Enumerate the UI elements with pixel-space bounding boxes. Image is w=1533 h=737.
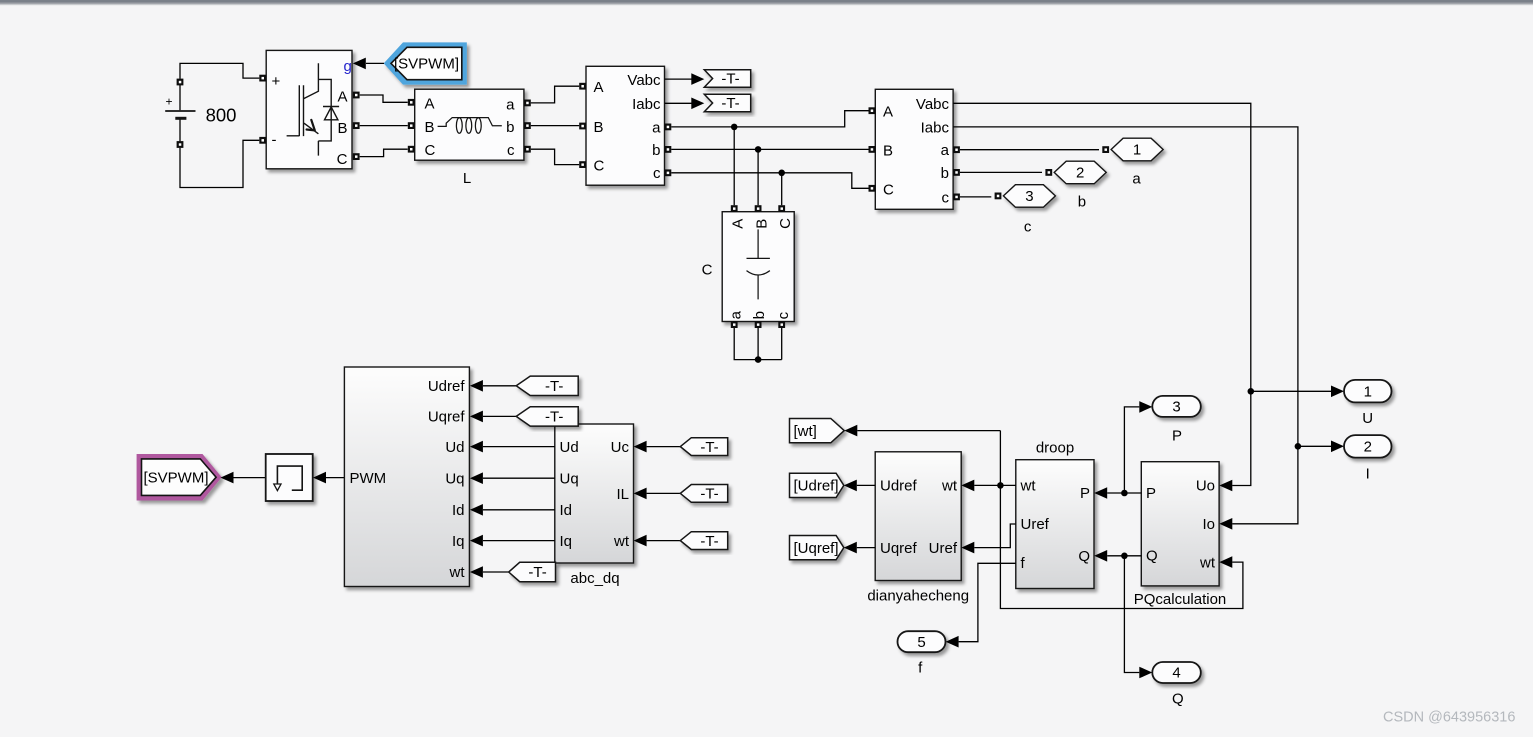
wire PWM output to memory bbox=[326, 477, 344, 479]
capacitor icon (rotated) bbox=[747, 229, 770, 299]
From tag -T- (wt to PWM) bbox=[509, 562, 556, 581]
IGBT/diode icon inside bridge bbox=[287, 63, 332, 155]
svg-text:Uq: Uq bbox=[445, 470, 464, 487]
svg-text:[wt]: [wt] bbox=[794, 423, 817, 440]
wire VI2 Vabc to output U and PQcalculation Uo bbox=[953, 103, 1251, 485]
wire L c to VI1 C bbox=[531, 149, 579, 164]
svg-text:-T-: -T- bbox=[700, 439, 718, 456]
svg-text:L: L bbox=[463, 170, 471, 187]
wire from tag to abc_dq Uc bbox=[647, 446, 681, 448]
wire VI1 b to VI2 B (node b) bbox=[671, 148, 868, 150]
outport 4 bbox=[1152, 662, 1201, 683]
subsystem block PWM bbox=[344, 367, 469, 587]
svg-text:B: B bbox=[883, 142, 893, 159]
svg-text:PWM: PWM bbox=[350, 470, 387, 487]
wire SVPWM tag to gate g bbox=[366, 62, 384, 64]
three-phase V-I measurement block VI2 bbox=[869, 89, 960, 209]
Goto tag [wt] bbox=[790, 419, 845, 443]
memory block (loop icon) bbox=[266, 454, 313, 501]
svg-text:B: B bbox=[425, 119, 435, 136]
wire VI1 Vabc to goto tag bbox=[665, 78, 692, 80]
svg-text:A: A bbox=[337, 89, 347, 106]
svg-text:b: b bbox=[1078, 193, 1086, 210]
svg-text:a: a bbox=[1132, 171, 1141, 188]
svg-text:Iq: Iq bbox=[452, 533, 465, 550]
svg-text:Vabc: Vabc bbox=[916, 96, 950, 113]
wire memory to goto [SVPWM] bbox=[234, 477, 266, 479]
subsystem block PQcalculation bbox=[1141, 462, 1219, 586]
svg-text:Id: Id bbox=[452, 502, 465, 519]
outport 2 bbox=[1344, 435, 1392, 458]
svg-text:A: A bbox=[730, 219, 747, 229]
svg-text:Uo: Uo bbox=[1196, 478, 1215, 495]
svg-text:B: B bbox=[337, 120, 347, 137]
wire branch to outport 2 bbox=[1298, 445, 1331, 447]
goto tag -T- (Iabc) bbox=[704, 94, 750, 111]
junction star point bbox=[755, 356, 762, 363]
DC voltage source V1 value 800 bbox=[165, 63, 259, 187]
svg-text:Io: Io bbox=[1202, 516, 1215, 533]
svg-text:a: a bbox=[941, 142, 950, 159]
svg-text:[SVPWM]: [SVPWM] bbox=[394, 56, 459, 73]
From tag -T- (IL) bbox=[680, 485, 727, 503]
svg-text:A: A bbox=[594, 79, 604, 96]
svg-text:Udref: Udref bbox=[428, 378, 466, 395]
svg-text:Id: Id bbox=[560, 502, 573, 519]
svg-text:[SVPWM]: [SVPWM] bbox=[143, 469, 208, 486]
svg-text:Iabc: Iabc bbox=[632, 96, 661, 113]
svg-text:-: - bbox=[272, 132, 277, 149]
svg-text:wt: wt bbox=[449, 564, 466, 581]
connection port 1 (phase a) bbox=[1102, 146, 1109, 153]
svg-text:Vabc: Vabc bbox=[627, 72, 661, 89]
wire from tag to PWM Udref bbox=[483, 385, 516, 387]
svg-text:Uref: Uref bbox=[929, 540, 958, 557]
junction I branch bbox=[1295, 443, 1302, 450]
svg-text:[Udref]: [Udref] bbox=[794, 478, 839, 495]
svg-text:a: a bbox=[652, 119, 661, 136]
svg-text:b: b bbox=[941, 165, 949, 182]
wire from tag to abc_dq IL bbox=[647, 492, 681, 494]
wire dianyahecheng Udref to goto [Udref] bbox=[857, 484, 875, 486]
wire VI2 Iabc to output I and PQcalculation Io bbox=[953, 127, 1298, 524]
wire capacitor c to star point bbox=[781, 328, 783, 360]
svg-text:c: c bbox=[942, 190, 950, 207]
svg-text:Uc: Uc bbox=[611, 439, 630, 456]
svg-text:C: C bbox=[777, 218, 794, 229]
svg-text:c: c bbox=[653, 165, 661, 182]
wire from tag to abc_dq wt bbox=[647, 540, 681, 542]
svg-text:wt: wt bbox=[613, 533, 630, 550]
subsystem block abc_dq bbox=[555, 424, 634, 563]
wire L b to VI1 B bbox=[531, 125, 579, 127]
svg-text:Uqref: Uqref bbox=[428, 408, 466, 425]
From tag [SVPWM] feeding gate g (blue selection highlight) bbox=[384, 42, 467, 84]
svg-text:droop: droop bbox=[1036, 439, 1074, 456]
svg-text:-T-: -T- bbox=[700, 533, 718, 550]
svg-text:3: 3 bbox=[1025, 188, 1033, 205]
outport 5 bbox=[898, 631, 946, 652]
svg-text:P: P bbox=[1080, 485, 1090, 502]
subsystem block dianyahecheng bbox=[875, 452, 961, 581]
From tag -T- (wt to abc_dq) bbox=[680, 532, 727, 550]
svg-text:wt: wt bbox=[1020, 478, 1037, 495]
svg-text:Q: Q bbox=[1078, 548, 1090, 565]
outport 3 bbox=[1152, 396, 1201, 417]
three-phase V-I measurement block VI1 bbox=[579, 66, 671, 185]
svg-text:-T-: -T- bbox=[721, 95, 739, 112]
wire inverter A to L A bbox=[360, 95, 408, 102]
svg-text:b: b bbox=[652, 142, 660, 159]
svg-text:+: + bbox=[272, 73, 281, 90]
svg-text:g: g bbox=[344, 58, 352, 75]
Goto tag [Udref] bbox=[790, 473, 844, 497]
svg-text:A: A bbox=[425, 95, 435, 112]
svg-text:Uref: Uref bbox=[1021, 516, 1050, 533]
three-phase capacitor bank block C bbox=[722, 205, 794, 328]
connection port 3 (phase c) bbox=[995, 193, 1002, 200]
wire tap b to capacitor B bbox=[757, 149, 759, 205]
wire tap c to capacitor C bbox=[781, 173, 783, 205]
wire from tag to PWM Uqref bbox=[483, 415, 516, 417]
wire abc_dq Uq to PWM Uq bbox=[483, 477, 555, 479]
svg-text:wt: wt bbox=[941, 478, 958, 495]
subsystem block droop bbox=[1016, 460, 1094, 589]
svg-text:c: c bbox=[507, 142, 515, 159]
wire VI2 a to connection port 1 bbox=[960, 149, 1099, 151]
svg-text:a: a bbox=[506, 96, 515, 113]
wire branch to outport 1 bbox=[1251, 390, 1331, 392]
connection port 2 (phase b) bbox=[1045, 169, 1052, 176]
svg-text:Q: Q bbox=[1172, 691, 1184, 708]
wire capacitor b to star point bbox=[757, 328, 759, 360]
svg-text:B: B bbox=[594, 119, 604, 136]
wire from tag to PWM wt bbox=[483, 571, 509, 573]
svg-text:P: P bbox=[1172, 427, 1182, 444]
svg-text:1: 1 bbox=[1133, 142, 1141, 159]
From tag -T- (Uqref) bbox=[516, 407, 578, 426]
wire droop f to outport 5 bbox=[959, 563, 1016, 641]
wire tap a to capacitor A bbox=[733, 127, 735, 205]
svg-text:Uq: Uq bbox=[560, 470, 579, 487]
three-phase inductor block L bbox=[408, 89, 531, 160]
wire capacitor a to star point bbox=[734, 328, 782, 360]
svg-text:CSDN @643956316: CSDN @643956316 bbox=[1383, 710, 1515, 726]
svg-text:I: I bbox=[1366, 465, 1370, 482]
svg-text:2: 2 bbox=[1076, 165, 1084, 182]
svg-text:Ud: Ud bbox=[445, 439, 464, 456]
svg-text:C: C bbox=[425, 142, 436, 159]
wire inverter C to L C bbox=[360, 149, 408, 156]
Goto tag [SVPWM] (magenta selection highlight) bbox=[137, 454, 222, 501]
svg-text:C: C bbox=[702, 262, 713, 279]
svg-text:[Uqref]: [Uqref] bbox=[794, 540, 839, 557]
svg-text:C: C bbox=[883, 181, 894, 198]
svg-text:IL: IL bbox=[616, 486, 629, 503]
svg-text:abc_dq: abc_dq bbox=[570, 570, 619, 587]
svg-text:C: C bbox=[594, 158, 605, 175]
svg-text:P: P bbox=[1146, 485, 1156, 502]
svg-text:U: U bbox=[1362, 410, 1373, 427]
wire abc_dq Iq to PWM Iq bbox=[483, 540, 555, 542]
svg-text:Iabc: Iabc bbox=[921, 120, 950, 137]
svg-text:c: c bbox=[775, 311, 792, 319]
wire VI1 Iabc to goto tag bbox=[665, 102, 692, 104]
svg-text:b: b bbox=[751, 311, 768, 319]
svg-text:5: 5 bbox=[917, 634, 925, 651]
wire dianyahecheng Uqref to goto [Uqref] bbox=[857, 547, 875, 549]
junction U branch bbox=[1248, 388, 1255, 395]
junction node c tap bbox=[778, 170, 785, 177]
svg-text:Uqref: Uqref bbox=[880, 540, 918, 557]
svg-text:-T-: -T- bbox=[528, 564, 546, 581]
wire abc_dq Ud to PWM Ud bbox=[483, 446, 555, 448]
wire PQcalculation P to droop P and outport 3 bbox=[1107, 492, 1141, 494]
outport 1 bbox=[1344, 380, 1392, 403]
svg-text:-T-: -T- bbox=[545, 409, 563, 426]
svg-text:800: 800 bbox=[206, 105, 237, 126]
svg-text:-T-: -T- bbox=[721, 71, 739, 88]
svg-text:2: 2 bbox=[1364, 439, 1372, 456]
IGBT universal bridge inverter U1 bbox=[259, 50, 359, 168]
svg-text:3: 3 bbox=[1172, 399, 1180, 416]
svg-text:Ud: Ud bbox=[560, 439, 579, 456]
Goto tag [Uqref] bbox=[790, 536, 844, 560]
wire VI2 c to connection port 3 bbox=[960, 196, 991, 198]
inductor coil icon bbox=[438, 118, 502, 127]
wire inverter B to L B bbox=[360, 125, 408, 127]
goto tag -T- (Vabc) bbox=[704, 70, 750, 87]
svg-text:wt: wt bbox=[1199, 554, 1216, 571]
svg-text:+: + bbox=[166, 94, 173, 108]
wire droop wt to dianyahecheng wt, goto [wt], PQcalculation wt bbox=[974, 484, 1016, 486]
svg-text:B: B bbox=[753, 219, 770, 229]
svg-text:a: a bbox=[727, 310, 744, 319]
svg-text:dianyahecheng: dianyahecheng bbox=[867, 588, 969, 605]
window top edge bar bbox=[0, 0, 1533, 2]
wire L a to VI1 A bbox=[531, 86, 579, 103]
From tag -T- (Uc) bbox=[680, 438, 727, 456]
wire VI2 b to connection port 2 bbox=[960, 171, 1042, 173]
From tag -T- (Udref) bbox=[516, 376, 578, 395]
wire VI1 c to VI2 C (node c) bbox=[671, 173, 868, 189]
svg-text:-T-: -T- bbox=[545, 378, 563, 395]
svg-text:PQcalculation: PQcalculation bbox=[1134, 591, 1227, 608]
wire droop Uref to dianyahecheng Uref bbox=[974, 524, 1016, 548]
junction node a tap bbox=[731, 124, 738, 131]
svg-text:Q: Q bbox=[1146, 548, 1158, 565]
svg-text:1: 1 bbox=[1364, 383, 1372, 400]
svg-text:A: A bbox=[883, 104, 893, 121]
wire VI1 a to VI2 A (node a) bbox=[671, 111, 868, 127]
junction node b tap bbox=[755, 146, 762, 153]
svg-text:Iq: Iq bbox=[560, 533, 573, 550]
svg-text:c: c bbox=[1024, 219, 1032, 236]
svg-text:C: C bbox=[337, 151, 348, 168]
svg-text:-T-: -T- bbox=[700, 486, 718, 503]
svg-text:Udref: Udref bbox=[880, 478, 918, 495]
svg-text:b: b bbox=[506, 119, 514, 136]
svg-text:4: 4 bbox=[1172, 665, 1180, 682]
wire abc_dq Id to PWM Id bbox=[483, 509, 555, 511]
wire PQcalculation Q to droop Q and outport 4 bbox=[1107, 555, 1141, 557]
